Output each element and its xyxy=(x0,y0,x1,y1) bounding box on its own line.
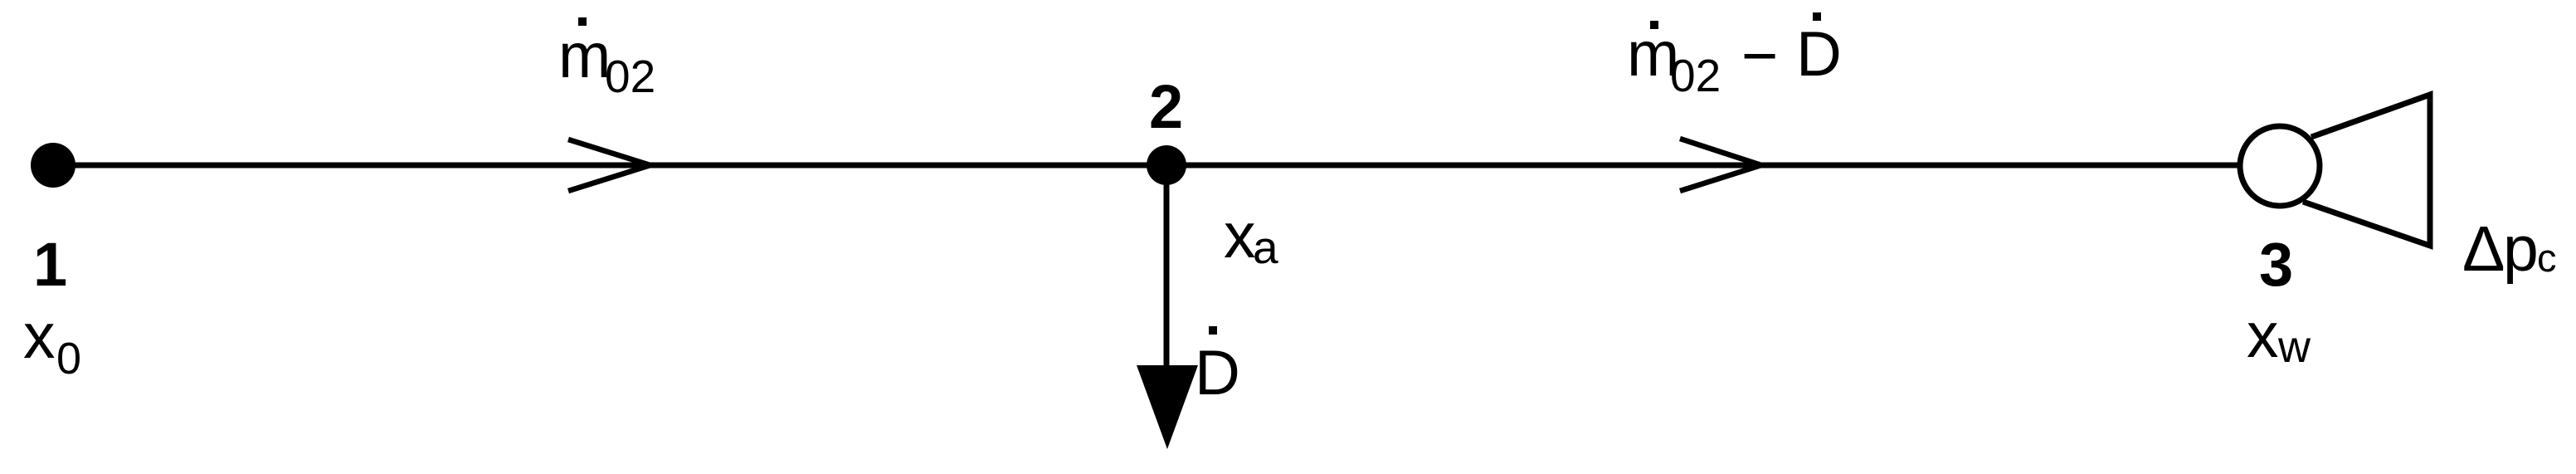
dot over m of m02-D xyxy=(1650,21,1658,29)
dot over D of m02-D xyxy=(1813,12,1821,21)
node 1 xyxy=(31,143,75,188)
dot over D (drain) xyxy=(1209,326,1217,335)
node 3 (junction circle) xyxy=(2240,126,2320,206)
flow arrow chevron m02 xyxy=(568,139,650,191)
wire node2 down (drain) xyxy=(1164,165,1170,369)
svg-text:2: 2 xyxy=(1149,72,1183,141)
svg-text:1: 1 xyxy=(33,230,67,299)
arrowhead drain D xyxy=(1137,365,1198,449)
wire main horizontal 1-2-3 xyxy=(53,163,2241,169)
dot over m of m02 xyxy=(578,17,587,26)
nozzle triangle at node 3 xyxy=(2303,95,2430,246)
flow arrow chevron m02 minus D xyxy=(1680,139,1761,191)
node 2 xyxy=(1147,145,1186,185)
svg-text:3: 3 xyxy=(2259,230,2293,299)
svg-text:D: D xyxy=(1195,338,1240,408)
